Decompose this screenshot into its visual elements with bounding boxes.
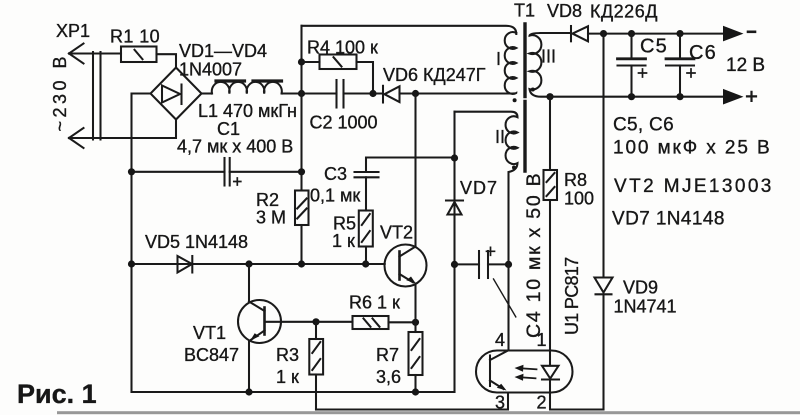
svg-text:1N4007: 1N4007 xyxy=(179,60,242,80)
plus sign xyxy=(747,92,756,101)
svg-text:VT2 MJE13003: VT2 MJE13003 xyxy=(614,176,774,197)
svg-text:100: 100 xyxy=(564,189,594,209)
svg-text:1N4741: 1N4741 xyxy=(614,297,677,317)
node L1 out xyxy=(298,90,305,97)
svg-text:VD6 КД247Г: VD6 КД247Г xyxy=(383,65,486,85)
wire winding III top to VD8 xyxy=(541,32,571,34)
svg-text:R3: R3 xyxy=(276,345,299,365)
winding II phase dot xyxy=(512,166,516,170)
node winding III bottom / R8 xyxy=(546,93,553,100)
node R5 bottom / VT2 base xyxy=(362,260,369,267)
diode VD5 xyxy=(178,256,193,273)
bottom scan band xyxy=(57,411,800,414)
node R6 right / VT2 emitter / R7 xyxy=(412,319,419,326)
svg-text:VT1: VT1 xyxy=(193,323,226,343)
winding III phase dot xyxy=(531,88,535,92)
svg-text:R4 100 к: R4 100 к xyxy=(307,38,378,58)
svg-text:VT2: VT2 xyxy=(380,223,413,243)
svg-text:C2 1000: C2 1000 xyxy=(310,113,378,133)
svg-text:R1 10: R1 10 xyxy=(110,27,160,47)
resistor R6 xyxy=(316,316,416,329)
T1 winding III xyxy=(530,33,551,97)
svg-text:3: 3 xyxy=(495,393,505,413)
output arrow plus xyxy=(723,89,744,105)
svg-text:I: I xyxy=(496,49,501,69)
svg-text:3 М: 3 М xyxy=(256,208,286,228)
opto LED xyxy=(542,351,559,393)
diode VD8 xyxy=(571,26,723,41)
svg-text:VD7: VD7 xyxy=(460,178,498,198)
transistor VT2 xyxy=(385,94,427,323)
resistor R7 xyxy=(409,322,423,392)
node C5 bottom xyxy=(628,93,635,100)
svg-text:VD9: VD9 xyxy=(623,278,658,298)
svg-text:C5: C5 xyxy=(640,36,668,58)
wire top mains xyxy=(69,52,121,54)
wire plus rail xyxy=(550,96,723,98)
node C2/VD6 xyxy=(369,90,376,97)
optocoupler U1 body xyxy=(476,351,573,393)
node VD6 / collector xyxy=(412,90,419,97)
inductor L1 xyxy=(212,81,282,94)
svg-text:XP1: XP1 xyxy=(56,21,90,41)
resistor R5 xyxy=(359,211,373,265)
svg-text:U1 PC817: U1 PC817 xyxy=(562,257,582,335)
svg-text:4: 4 xyxy=(495,330,505,350)
svg-text:BC847: BC847 xyxy=(184,345,239,365)
svg-text:1: 1 xyxy=(537,330,547,350)
bridge rectifier VD1-VD4 xyxy=(151,68,202,120)
capacitor C6 xyxy=(666,34,695,97)
wire VD5 row xyxy=(132,263,385,265)
svg-text:~230 В: ~230 В xyxy=(50,53,70,132)
node C6 bottom xyxy=(676,93,683,100)
node C3 / VD7 top xyxy=(451,154,458,161)
transistor VT1 xyxy=(238,264,316,392)
node C1 right xyxy=(298,168,305,175)
XP1 bottom pin arrow xyxy=(69,128,84,148)
wire lower rail to opto pin 3 xyxy=(316,393,508,410)
zener diode VD9 xyxy=(595,34,613,410)
svg-text:R6 1 к: R6 1 к xyxy=(349,293,400,313)
connector XP1 plug lines xyxy=(93,52,101,140)
node R4 left xyxy=(298,58,305,65)
node VT1 emitter / bottom rail xyxy=(245,388,252,395)
svg-text:КД226Д: КД226Д xyxy=(590,2,658,22)
node C4 left xyxy=(451,261,458,268)
svg-text:0,1 мк: 0,1 мк xyxy=(310,186,360,206)
svg-text:C5, C6: C5, C6 xyxy=(613,115,674,136)
node VD9 top xyxy=(600,30,607,37)
resistor R2 xyxy=(295,191,309,265)
svg-text:12 В: 12 В xyxy=(726,55,765,76)
resistor R8 xyxy=(544,97,558,351)
minus sign xyxy=(748,30,755,33)
svg-text:C4 10 мк x 50 В: C4 10 мк x 50 В xyxy=(523,172,545,338)
wire bridge left to left rail xyxy=(132,94,151,393)
svg-text:R8: R8 xyxy=(564,170,587,190)
wire bottom mains xyxy=(69,120,176,138)
svg-text:VD1—VD4: VD1—VD4 xyxy=(179,41,267,61)
winding I phase dot xyxy=(513,98,517,102)
node VT1 base / R3 top xyxy=(312,318,319,325)
capacitor C2 xyxy=(337,80,383,108)
resistor R4 xyxy=(302,55,374,94)
node C1 left xyxy=(128,168,135,175)
diode VD7 xyxy=(446,158,463,392)
svg-text:T1: T1 xyxy=(514,1,535,21)
wire R1 to bridge top xyxy=(157,54,177,68)
svg-text:L1 470 мкГн: L1 470 мкГн xyxy=(198,101,297,121)
resistor R1 xyxy=(121,47,157,63)
svg-text:III: III xyxy=(541,47,556,67)
wire riser to top rail xyxy=(300,26,302,191)
node C6 top xyxy=(676,30,683,37)
node VD5 left xyxy=(128,260,135,267)
node VT1 collector xyxy=(245,260,252,267)
wire bridge right to L1 xyxy=(202,92,213,94)
C4 label leader line xyxy=(494,279,516,317)
svg-text:3,6: 3,6 xyxy=(376,367,401,387)
node C4 right / winding II bottom xyxy=(505,261,512,268)
output arrow minus xyxy=(723,26,744,42)
T1 winding II xyxy=(455,112,518,351)
XP1 top pin arrow xyxy=(69,44,84,64)
resistor R3 xyxy=(309,322,323,410)
wire winding II top xyxy=(453,112,455,158)
svg-text:2: 2 xyxy=(537,393,547,413)
capacitor C4 xyxy=(455,247,509,278)
svg-text:100 мкФ x 25 В: 100 мкФ x 25 В xyxy=(613,138,772,159)
opto light arrows xyxy=(515,365,537,381)
wire bottom rail xyxy=(132,391,455,393)
svg-text:Рис. 1: Рис. 1 xyxy=(17,379,97,409)
T1 primary winding I xyxy=(505,32,517,94)
node R2 bottom xyxy=(298,260,305,267)
wire C3 row xyxy=(366,158,455,172)
capacitor C5 xyxy=(618,34,647,97)
svg-text:R7: R7 xyxy=(376,345,399,365)
transformer T1 core xyxy=(523,24,526,171)
wire opto pin2 rail xyxy=(550,393,604,410)
node C5 top xyxy=(628,30,635,37)
svg-text:VD8: VD8 xyxy=(547,1,582,21)
capacitor C3 xyxy=(355,172,379,211)
svg-text:1 к: 1 к xyxy=(276,367,299,387)
svg-text:C6: C6 xyxy=(689,42,717,64)
svg-text:VD7 1N4148: VD7 1N4148 xyxy=(612,209,725,230)
node R7 bottom xyxy=(412,388,419,395)
capacitor C1 xyxy=(132,158,302,186)
svg-text:VD5 1N4148: VD5 1N4148 xyxy=(145,232,248,252)
svg-text:C3: C3 xyxy=(324,164,347,184)
svg-text:II: II xyxy=(495,127,505,147)
diode VD6 xyxy=(383,86,509,103)
opto phototransistor xyxy=(490,351,508,391)
wire L1 to C2 xyxy=(282,92,337,94)
svg-text:1 к: 1 к xyxy=(332,231,355,251)
wire top rail to T1 primary xyxy=(302,26,517,34)
svg-text:4,7 мк x 400 В: 4,7 мк x 400 В xyxy=(177,137,293,157)
